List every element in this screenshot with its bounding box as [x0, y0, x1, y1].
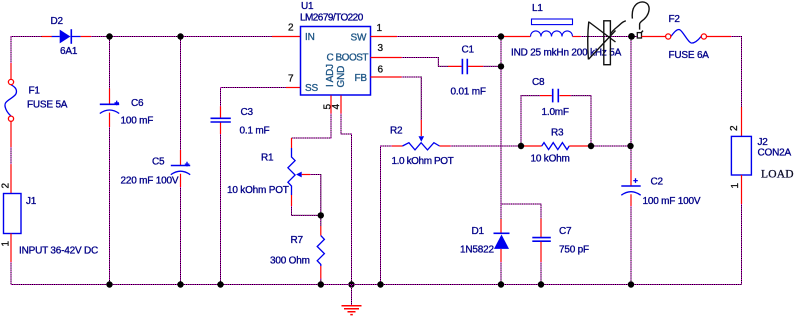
- connector J1: [1, 183, 99, 257]
- diode D2: [42, 16, 92, 57]
- svg-text:IN: IN: [305, 32, 315, 43]
- svg-text:0.01 mF: 0.01 mF: [451, 87, 486, 98]
- connector J2: [729, 125, 794, 189]
- svg-text:750 pF: 750 pF: [559, 245, 589, 256]
- svg-text:2: 2: [729, 125, 740, 131]
- potentiometer R2: [390, 126, 454, 168]
- fuse F1: [5, 63, 68, 147]
- svg-text:LM2679/TO220: LM2679/TO220: [300, 13, 364, 24]
- resistor R7: [270, 215, 324, 284]
- op-amp U1 LM2679: [288, 1, 384, 110]
- svg-text:LOAD: LOAD: [761, 169, 794, 181]
- wire R2 left to bottom rail: [381, 146, 392, 285]
- annotation square mark: [637, 31, 643, 38]
- node SW junction: [498, 33, 504, 39]
- svg-text:IND 25 mkHn 200 kHz 5A: IND 25 mkHn 200 kHz 5A: [511, 48, 622, 59]
- J2 pin 2 lead: [741, 107, 743, 136]
- svg-text:1.0mF: 1.0mF: [542, 107, 569, 118]
- pin 6 lead: [371, 76, 402, 78]
- resistor R3: [521, 128, 591, 165]
- svg-text:300 Ohm: 300 Ohm: [270, 256, 310, 267]
- wire input top-left corner: [11, 37, 42, 64]
- annotation question mark scribble: [632, 2, 649, 30]
- diode D1: [460, 219, 510, 262]
- wire pin 6 FB to R2 wiper: [402, 77, 422, 120]
- svg-text:SS: SS: [305, 83, 318, 94]
- svg-text:6: 6: [378, 65, 384, 76]
- svg-text:F1: F1: [29, 86, 41, 97]
- svg-text:1: 1: [730, 183, 741, 189]
- wire pin 4 GND to ground: [341, 114, 352, 285]
- svg-text:FUSE 6A: FUSE 6A: [669, 50, 710, 61]
- svg-text:R7: R7: [291, 235, 304, 246]
- svg-text:R2: R2: [390, 126, 403, 137]
- node output mid junction: [627, 143, 633, 149]
- capacitor C5: [121, 37, 191, 285]
- wire C3 to U1 pin 7: [221, 87, 287, 89]
- wire L1 to output node: [581, 36, 638, 38]
- svg-text:J2: J2: [758, 137, 769, 148]
- node bottom R7: [318, 281, 324, 287]
- node ground junction: [348, 281, 354, 287]
- svg-text:C7: C7: [559, 226, 572, 237]
- wire D2 to U1 pin 2: [91, 36, 272, 38]
- svg-text:SW: SW: [351, 33, 367, 44]
- J1 pin 1 lead: [10, 234, 12, 263]
- svg-text:1.0 kOhm POT: 1.0 kOhm POT: [392, 156, 454, 167]
- inductor L1: [504, 3, 622, 59]
- svg-text:C8: C8: [532, 77, 545, 88]
- potentiometer R1: [227, 138, 310, 206]
- wire SW to L1 node: [397, 36, 504, 38]
- svg-text:D2: D2: [51, 16, 64, 27]
- capacitor C1: [448, 45, 486, 98]
- svg-text:1: 1: [1, 241, 12, 247]
- svg-text:C6: C6: [131, 98, 144, 109]
- svg-text:J1: J1: [26, 196, 37, 207]
- wire F2 to J2: [731, 37, 742, 108]
- svg-text:4: 4: [331, 104, 342, 110]
- svg-text:R3: R3: [551, 128, 564, 139]
- svg-text:C1: C1: [462, 45, 475, 56]
- svg-text:R1: R1: [261, 153, 274, 164]
- capacitor C8: [521, 77, 591, 146]
- svg-text:U1: U1: [301, 1, 314, 12]
- svg-text:2: 2: [288, 23, 294, 34]
- node bottom C6: [106, 281, 112, 287]
- svg-text:6A1: 6A1: [60, 46, 78, 57]
- svg-text:1: 1: [377, 23, 383, 34]
- svg-text:7: 7: [288, 74, 294, 85]
- svg-text:C2: C2: [651, 177, 664, 188]
- svg-text:1N5822: 1N5822: [460, 245, 494, 256]
- svg-text:3: 3: [378, 43, 384, 54]
- wire pin 3 to C1: [402, 58, 448, 67]
- svg-text:F2: F2: [669, 14, 681, 25]
- wire SW node down through D1: [500, 37, 502, 220]
- node output top junction: [628, 33, 635, 40]
- node C1/D1 junction: [498, 63, 504, 69]
- wire J2 to bottom rail: [741, 204, 743, 285]
- capacitor C2: [621, 37, 701, 285]
- capacitor C7: [532, 219, 589, 262]
- wire D1 to bottom rail: [500, 262, 502, 285]
- pin 5 lead: [330, 96, 332, 114]
- node R3 right junction: [588, 143, 594, 149]
- svg-text:100 mF: 100 mF: [121, 116, 154, 127]
- node bottom C5: [177, 281, 183, 287]
- pin 4 lead: [340, 96, 342, 114]
- ground: [342, 306, 362, 315]
- pin 7 lead: [286, 87, 301, 89]
- wire R1 wiper to R7 node: [310, 175, 321, 216]
- node R3 left junction: [518, 143, 524, 149]
- node bottom D1: [498, 281, 504, 287]
- node top rail C5 junction: [177, 33, 183, 39]
- wire C1 to SW node: [483, 65, 501, 67]
- pin 2 lead: [272, 36, 301, 38]
- svg-text:L1: L1: [532, 3, 543, 14]
- capacitor C3: [211, 88, 270, 285]
- svg-text:FB: FB: [355, 73, 368, 84]
- wire J1 to bottom rail: [10, 262, 12, 285]
- svg-text:0.1 mF: 0.1 mF: [240, 126, 270, 137]
- wire pin 5 to R1: [292, 114, 332, 139]
- svg-text:GND: GND: [336, 66, 347, 88]
- wire R3 to C2 node: [591, 145, 631, 147]
- pin 1 lead: [371, 36, 398, 38]
- svg-text:100 mF 100V: 100 mF 100V: [643, 196, 701, 207]
- wire D1 node to C7: [501, 204, 541, 219]
- annotation speaker scribble: [588, 21, 626, 65]
- wire bottom rail: [11, 284, 742, 286]
- node top rail C6 junction: [106, 33, 112, 39]
- node bottom R2: [377, 281, 383, 287]
- svg-text:FUSE 5A: FUSE 5A: [27, 100, 68, 111]
- wire C7 to bottom rail: [540, 262, 542, 285]
- svg-text:10 kOhm: 10 kOhm: [531, 154, 570, 165]
- svg-text:D1: D1: [472, 226, 485, 237]
- svg-text:INPUT 36-42V DC: INPUT 36-42V DC: [19, 246, 98, 257]
- J2 pin 1 lead: [741, 175, 743, 204]
- svg-text:2: 2: [1, 183, 12, 189]
- svg-text:C5: C5: [152, 157, 165, 168]
- svg-text:10 kOhm POT: 10 kOhm POT: [227, 185, 289, 196]
- svg-text:C3: C3: [241, 107, 254, 118]
- wire F1 to J1: [10, 147, 12, 164]
- node bottom C2: [628, 281, 634, 287]
- svg-text:220 mF 100V: 220 mF 100V: [121, 176, 179, 187]
- fuse F2: [642, 14, 732, 61]
- node R1/R7 junction: [318, 212, 324, 218]
- wire R2 right to R3 node: [451, 145, 522, 147]
- svg-text:I ADJ: I ADJ: [325, 64, 336, 87]
- svg-text:CON2A: CON2A: [758, 148, 792, 159]
- pin 3 lead: [371, 57, 402, 59]
- wire R1 bottom to R7 node: [292, 206, 321, 215]
- wire ground stub: [351, 285, 353, 306]
- svg-text:C BOOST: C BOOST: [327, 53, 369, 64]
- J1 pin 2 lead: [10, 164, 12, 193]
- node bottom C3: [217, 281, 223, 287]
- node bottom C7: [538, 281, 544, 287]
- capacitor C6: [100, 37, 153, 285]
